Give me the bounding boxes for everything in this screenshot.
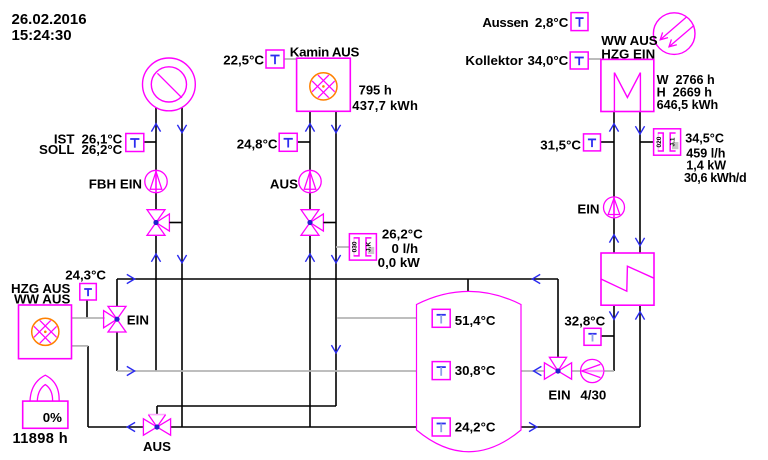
pump solar EIN — [604, 197, 625, 218]
arrow down below HX left — [609, 311, 618, 319]
wire line y406 AUS-valve to Kamin return — [157, 405, 336, 407]
arrow down FBH return above y279 — [177, 255, 186, 263]
svg-text:2,8°C: 2,8°C — [535, 15, 569, 30]
svg-text:32,8°C: 32,8°C — [564, 313, 605, 328]
svg-text:Aussen: Aussen — [482, 15, 528, 30]
svg-text:51,4°C: 51,4°C — [455, 313, 496, 328]
svg-text:30,8°C: 30,8°C — [455, 363, 496, 378]
arrow up FBH supply top — [151, 124, 160, 132]
svg-text:WW AUS: WW AUS — [601, 33, 658, 48]
wire gray boiler to EIN valve y318 — [72, 317, 105, 319]
wire tank top stub x468 — [467, 279, 469, 294]
valve Kamin mixer — [301, 210, 319, 223]
arrow up FBH supply above y279 — [151, 254, 160, 262]
svg-text:FBH EIN: FBH EIN — [89, 176, 142, 191]
wire gray tank to right EIN valve y370 — [521, 370, 544, 372]
arrow up below HX right — [635, 312, 644, 320]
wire stub 32,8 sensor to pipe — [601, 335, 614, 337]
wire pipe x640 below heat exchanger to bottom line — [639, 305, 641, 427]
wire stub solar flow sensor — [640, 141, 654, 143]
arrow left bottom line y427 — [127, 422, 135, 431]
svg-text:15:24:30: 15:24:30 — [12, 27, 72, 44]
wire boiler lower drop x88 — [87, 346, 89, 427]
wire bottom return line y427 left part — [88, 426, 144, 428]
svg-text:24,8°C: 24,8°C — [237, 137, 278, 152]
svg-text:020: 020 — [656, 136, 663, 147]
wire boiler valve bottom pipe x117 — [116, 332, 118, 371]
svg-text:Kollektor: Kollektor — [465, 53, 523, 68]
svg-text:24,2°C: 24,2°C — [455, 420, 496, 435]
wire gray right valve to pump to pipe y370 — [572, 370, 614, 372]
svg-text:26.02.2016: 26.02.2016 — [12, 11, 87, 28]
svg-text:795 h: 795 h — [359, 83, 392, 98]
sensor box tank bottom 24,2 — [432, 418, 450, 436]
svg-text:0%: 0% — [43, 410, 62, 425]
wire gray stub Kamin flow sensor — [336, 246, 349, 248]
heating circuit symbol — [143, 58, 196, 111]
svg-text:WW AUS: WW AUS — [14, 292, 71, 307]
svg-text:34,5°C: 34,5°C — [685, 131, 724, 145]
arrow left top line y279 near tank — [532, 274, 540, 283]
svg-text:34,0°C: 34,0°C — [527, 53, 568, 68]
svg-text:HZG EIN: HZG EIN — [601, 47, 655, 62]
burner modulation box 0% — [30, 375, 59, 401]
valve EIN right — [544, 363, 558, 379]
svg-text:31,5°C: 31,5°C — [540, 137, 581, 152]
svg-text:AUS: AUS — [143, 439, 171, 454]
valve AUS bottom — [143, 419, 157, 435]
heat exchanger box — [601, 253, 654, 305]
arrow right bottom line y427 near tank — [529, 422, 537, 431]
wire stub 31,5 sensor to pipe — [599, 141, 614, 143]
wire bottom return line y427 right part — [171, 426, 417, 428]
gas boiler box with M symbol — [601, 59, 654, 111]
sensor box Kollektor — [570, 52, 588, 69]
svg-text:AUS: AUS — [270, 176, 298, 191]
svg-text:Kamin AUS: Kamin AUS — [290, 44, 360, 59]
arrow up solar supply below box — [609, 124, 618, 132]
boiler box bottom left — [19, 305, 72, 359]
wire bottom line tank to heat exchanger y427 — [521, 426, 640, 428]
sensor box 31,5 — [584, 134, 601, 151]
svg-text:EIN: EIN — [127, 313, 149, 328]
arrow up Kamin supply above y279 — [305, 254, 314, 262]
svg-text:11898 h: 11898 h — [13, 431, 69, 447]
svg-text:EIN: EIN — [548, 388, 570, 403]
buffer tank — [417, 291, 522, 451]
pump 4/30 — [581, 359, 604, 382]
svg-text:SOLL: SOLL — [39, 142, 74, 157]
wire Kamin return pipe vertical x336 — [335, 111, 337, 406]
arrow down Kamin return top — [331, 125, 340, 133]
valve FBH mixer — [147, 210, 165, 223]
arrow right middle line y370 — [127, 366, 135, 375]
svg-text:J.K: J.K — [365, 242, 372, 252]
wire gray Kamin return to tank y318 — [337, 317, 416, 319]
svg-text:0 l/h: 0 l/h — [391, 241, 418, 256]
arrow right top line y279 — [127, 274, 135, 283]
svg-text:4/30: 4/30 — [580, 388, 606, 403]
wire solar return pipe vertical x640 upper — [639, 112, 641, 254]
sensor box 22,5 — [266, 50, 284, 68]
svg-text:437,7 kWh: 437,7 kWh — [352, 98, 418, 113]
wire top supply line y279 — [117, 278, 558, 280]
wire FBH supply pipe vertical x156 — [155, 108, 157, 171]
wire solar pipe x614 below heat exchanger — [613, 305, 615, 371]
arrow down solar return below box — [635, 126, 644, 134]
sensor box 32,8 — [584, 328, 601, 345]
wire gray boiler lower stub y346 — [72, 345, 89, 347]
svg-text:0,0 kW: 0,0 kW — [378, 255, 421, 270]
wire Kamin supply pipe vertical x310 — [309, 111, 311, 171]
wire right valve riser x558 — [557, 279, 559, 357]
wire stub IST sensor to pipe — [145, 141, 157, 143]
valve boiler EIN — [108, 306, 126, 319]
wire stub boiler T sensor drop x87 — [86, 300, 88, 319]
svg-text:26,2°C: 26,2°C — [81, 142, 122, 157]
sensor box IST/SOLL room — [126, 134, 144, 152]
svg-text:26,2°C: 26,2°C — [382, 226, 423, 241]
sensor box boiler 24,3 — [80, 284, 97, 301]
arrow left tank to valve y370 — [534, 366, 542, 375]
wire FBH return pipe vertical x182 — [181, 108, 183, 428]
solar collector symbol — [653, 13, 695, 55]
arrow up Kamin supply top — [305, 124, 314, 132]
sensor box 24,8 — [279, 133, 297, 151]
arrow down Kamin return y353 — [331, 345, 340, 353]
arrow down solar return above HX — [635, 238, 644, 246]
wire solar supply pipe vertical x614 upper — [613, 112, 615, 198]
svg-text:30,6 kWh/d: 30,6 kWh/d — [684, 171, 746, 185]
svg-text:646,5 kWh: 646,5 kWh — [657, 98, 719, 112]
sensor box tank mid 30,8 — [432, 362, 450, 380]
pump FBH EIN — [145, 170, 167, 192]
wire gray stub 22,5 sensor to Kamin box — [284, 58, 296, 60]
svg-text:24,3°C: 24,3°C — [65, 268, 106, 283]
Kamin boiler box — [297, 58, 351, 111]
svg-text:22,5°C: 22,5°C — [223, 53, 264, 68]
flow sensor solar — [654, 129, 681, 155]
arrow down FBH return top — [177, 125, 186, 133]
pump Kamin AUS — [299, 170, 321, 192]
svg-text:EIN: EIN — [577, 202, 599, 217]
svg-text:030: 030 — [352, 241, 359, 252]
sensor box tank top 51,4 — [432, 309, 450, 327]
arrow up solar supply above HX — [609, 235, 618, 243]
sensor box Aussen — [571, 13, 588, 31]
flow sensor Kamin — [349, 234, 376, 260]
wire boiler valve top pipe x117 — [116, 279, 118, 306]
wire gray stub Kollektor sensor to boiler box — [588, 58, 601, 60]
svg-text:J.1: J.1 — [670, 137, 677, 146]
arrow down Kamin return above y279 — [331, 255, 340, 263]
wire gray middle return line y370 — [117, 370, 417, 372]
wire stub 24,8 sensor to pipe — [297, 141, 310, 143]
